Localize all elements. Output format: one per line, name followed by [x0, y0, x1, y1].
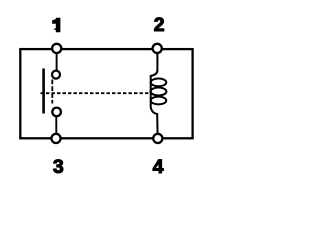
wire terminal2 to coil [151, 52, 158, 76]
svg-text:4: 4 [153, 156, 164, 178]
coil L1 spine [150, 75, 152, 108]
terminal 3 [51, 134, 60, 143]
terminal 2 [153, 44, 162, 53]
terminal 4 [153, 134, 162, 143]
svg-text:3: 3 [53, 156, 64, 178]
coil L1 turn 3 [151, 97, 167, 105]
armature bar [42, 69, 45, 114]
wire coil to terminal4 [151, 107, 158, 135]
dashed contact link [51, 80, 53, 104]
lower fixed contact circle [52, 108, 61, 117]
wire terminal1 to upper contact [56, 52, 58, 72]
terminal 1 [52, 44, 61, 53]
upper fixed contact circle [52, 71, 60, 79]
pin label 1 [52, 18, 60, 33]
wire lower contact to terminal3 [55, 116, 57, 135]
relay case outline [20, 49, 192, 138]
svg-text:2: 2 [154, 14, 165, 36]
coil L1 turn 1 [151, 79, 167, 87]
dashed mechanical link to coil [41, 92, 150, 94]
coil L1 turn 2 [151, 88, 167, 96]
